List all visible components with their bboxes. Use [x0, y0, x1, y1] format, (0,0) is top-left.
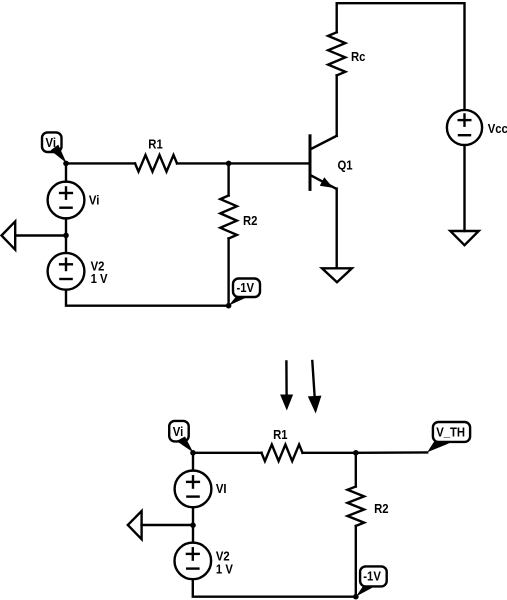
svg-text:1 V: 1 V	[216, 562, 234, 577]
wire base	[229, 162, 310, 164]
wire Vi source to node C	[65, 218, 67, 253]
voltage source V2 (bottom)	[175, 543, 212, 580]
ground arrow (left, bottom circuit)	[128, 511, 193, 539]
node label V_TH (flag)	[427, 422, 470, 452]
wire Vcc to ground	[463, 145, 465, 231]
svg-text:Vcc: Vcc	[488, 121, 507, 136]
svg-text:Vi: Vi	[173, 424, 183, 439]
wire emitter down	[336, 189, 338, 269]
wire node Vi down to source Vi	[65, 163, 67, 181]
resistor R1 (bottom)	[262, 445, 303, 462]
voltage source VI	[175, 471, 212, 508]
node label Vi (flag, bottom)	[169, 421, 193, 453]
voltage source Vi	[48, 182, 85, 219]
node label Vi (flag)	[42, 132, 67, 163]
svg-text:Vi: Vi	[46, 135, 56, 150]
resistor R2	[220, 196, 237, 239]
node B dot	[226, 161, 232, 167]
wire node D to V_TH	[356, 451, 427, 454]
wire Rc to collector	[336, 75, 338, 135]
voltage source Vcc	[447, 110, 482, 145]
wire node Vi down to source VI	[192, 453, 194, 471]
svg-text:V_TH: V_TH	[436, 425, 465, 440]
node Vi dot (bottom)	[190, 450, 196, 456]
node label -1V (flag, top circuit)	[229, 279, 260, 306]
svg-text:R1: R1	[273, 427, 288, 442]
wire bottom rail (top circuit)	[66, 290, 229, 306]
ground (Vcc)	[450, 231, 478, 245]
node -1V dot (bottom)	[353, 594, 359, 600]
wire top rail	[337, 3, 465, 110]
resistor Rc	[328, 32, 345, 75]
transistor Q1	[310, 136, 337, 190]
node label -1V (flag, bottom)	[356, 566, 387, 596]
svg-text:1 V: 1 V	[91, 271, 109, 286]
node C dot	[63, 233, 69, 239]
wire node B down to R2	[227, 163, 229, 195]
svg-text:Vi: Vi	[89, 193, 99, 208]
svg-text:R1: R1	[148, 137, 163, 152]
arrow 1	[280, 362, 293, 411]
resistor R1	[135, 155, 177, 172]
svg-text:R2: R2	[374, 501, 389, 516]
wire VI source to node E	[192, 507, 194, 542]
svg-text:Q1: Q1	[338, 158, 353, 173]
wire node Vi to R1	[66, 162, 135, 164]
wire node Vi to R1 (bottom)	[193, 452, 262, 454]
svg-text:VI: VI	[216, 481, 227, 496]
svg-text:-1V: -1V	[363, 569, 381, 584]
node E dot	[190, 522, 196, 528]
wire R2 to bottom rail	[227, 239, 229, 306]
wire R1 to node B	[177, 162, 229, 164]
node Vi dot	[63, 161, 69, 167]
ground (emitter)	[322, 268, 352, 282]
resistor R2 (bottom)	[348, 487, 365, 526]
wire node D down to R2 (bottom)	[355, 453, 357, 487]
node D dot (bottom)	[353, 450, 359, 456]
svg-text:-1V: -1V	[237, 280, 255, 295]
wire R1 to node D (bottom)	[303, 452, 356, 454]
arrow 2	[308, 361, 322, 414]
wire R2 to bottom rail (bottom)	[355, 526, 357, 597]
wire bottom rail (bottom circuit)	[193, 579, 356, 597]
ground arrow (left, top circuit)	[2, 221, 67, 249]
svg-text:Rc: Rc	[351, 49, 366, 64]
svg-text:R2: R2	[243, 213, 258, 228]
node -1V dot	[226, 303, 232, 309]
voltage source V2	[48, 253, 85, 290]
